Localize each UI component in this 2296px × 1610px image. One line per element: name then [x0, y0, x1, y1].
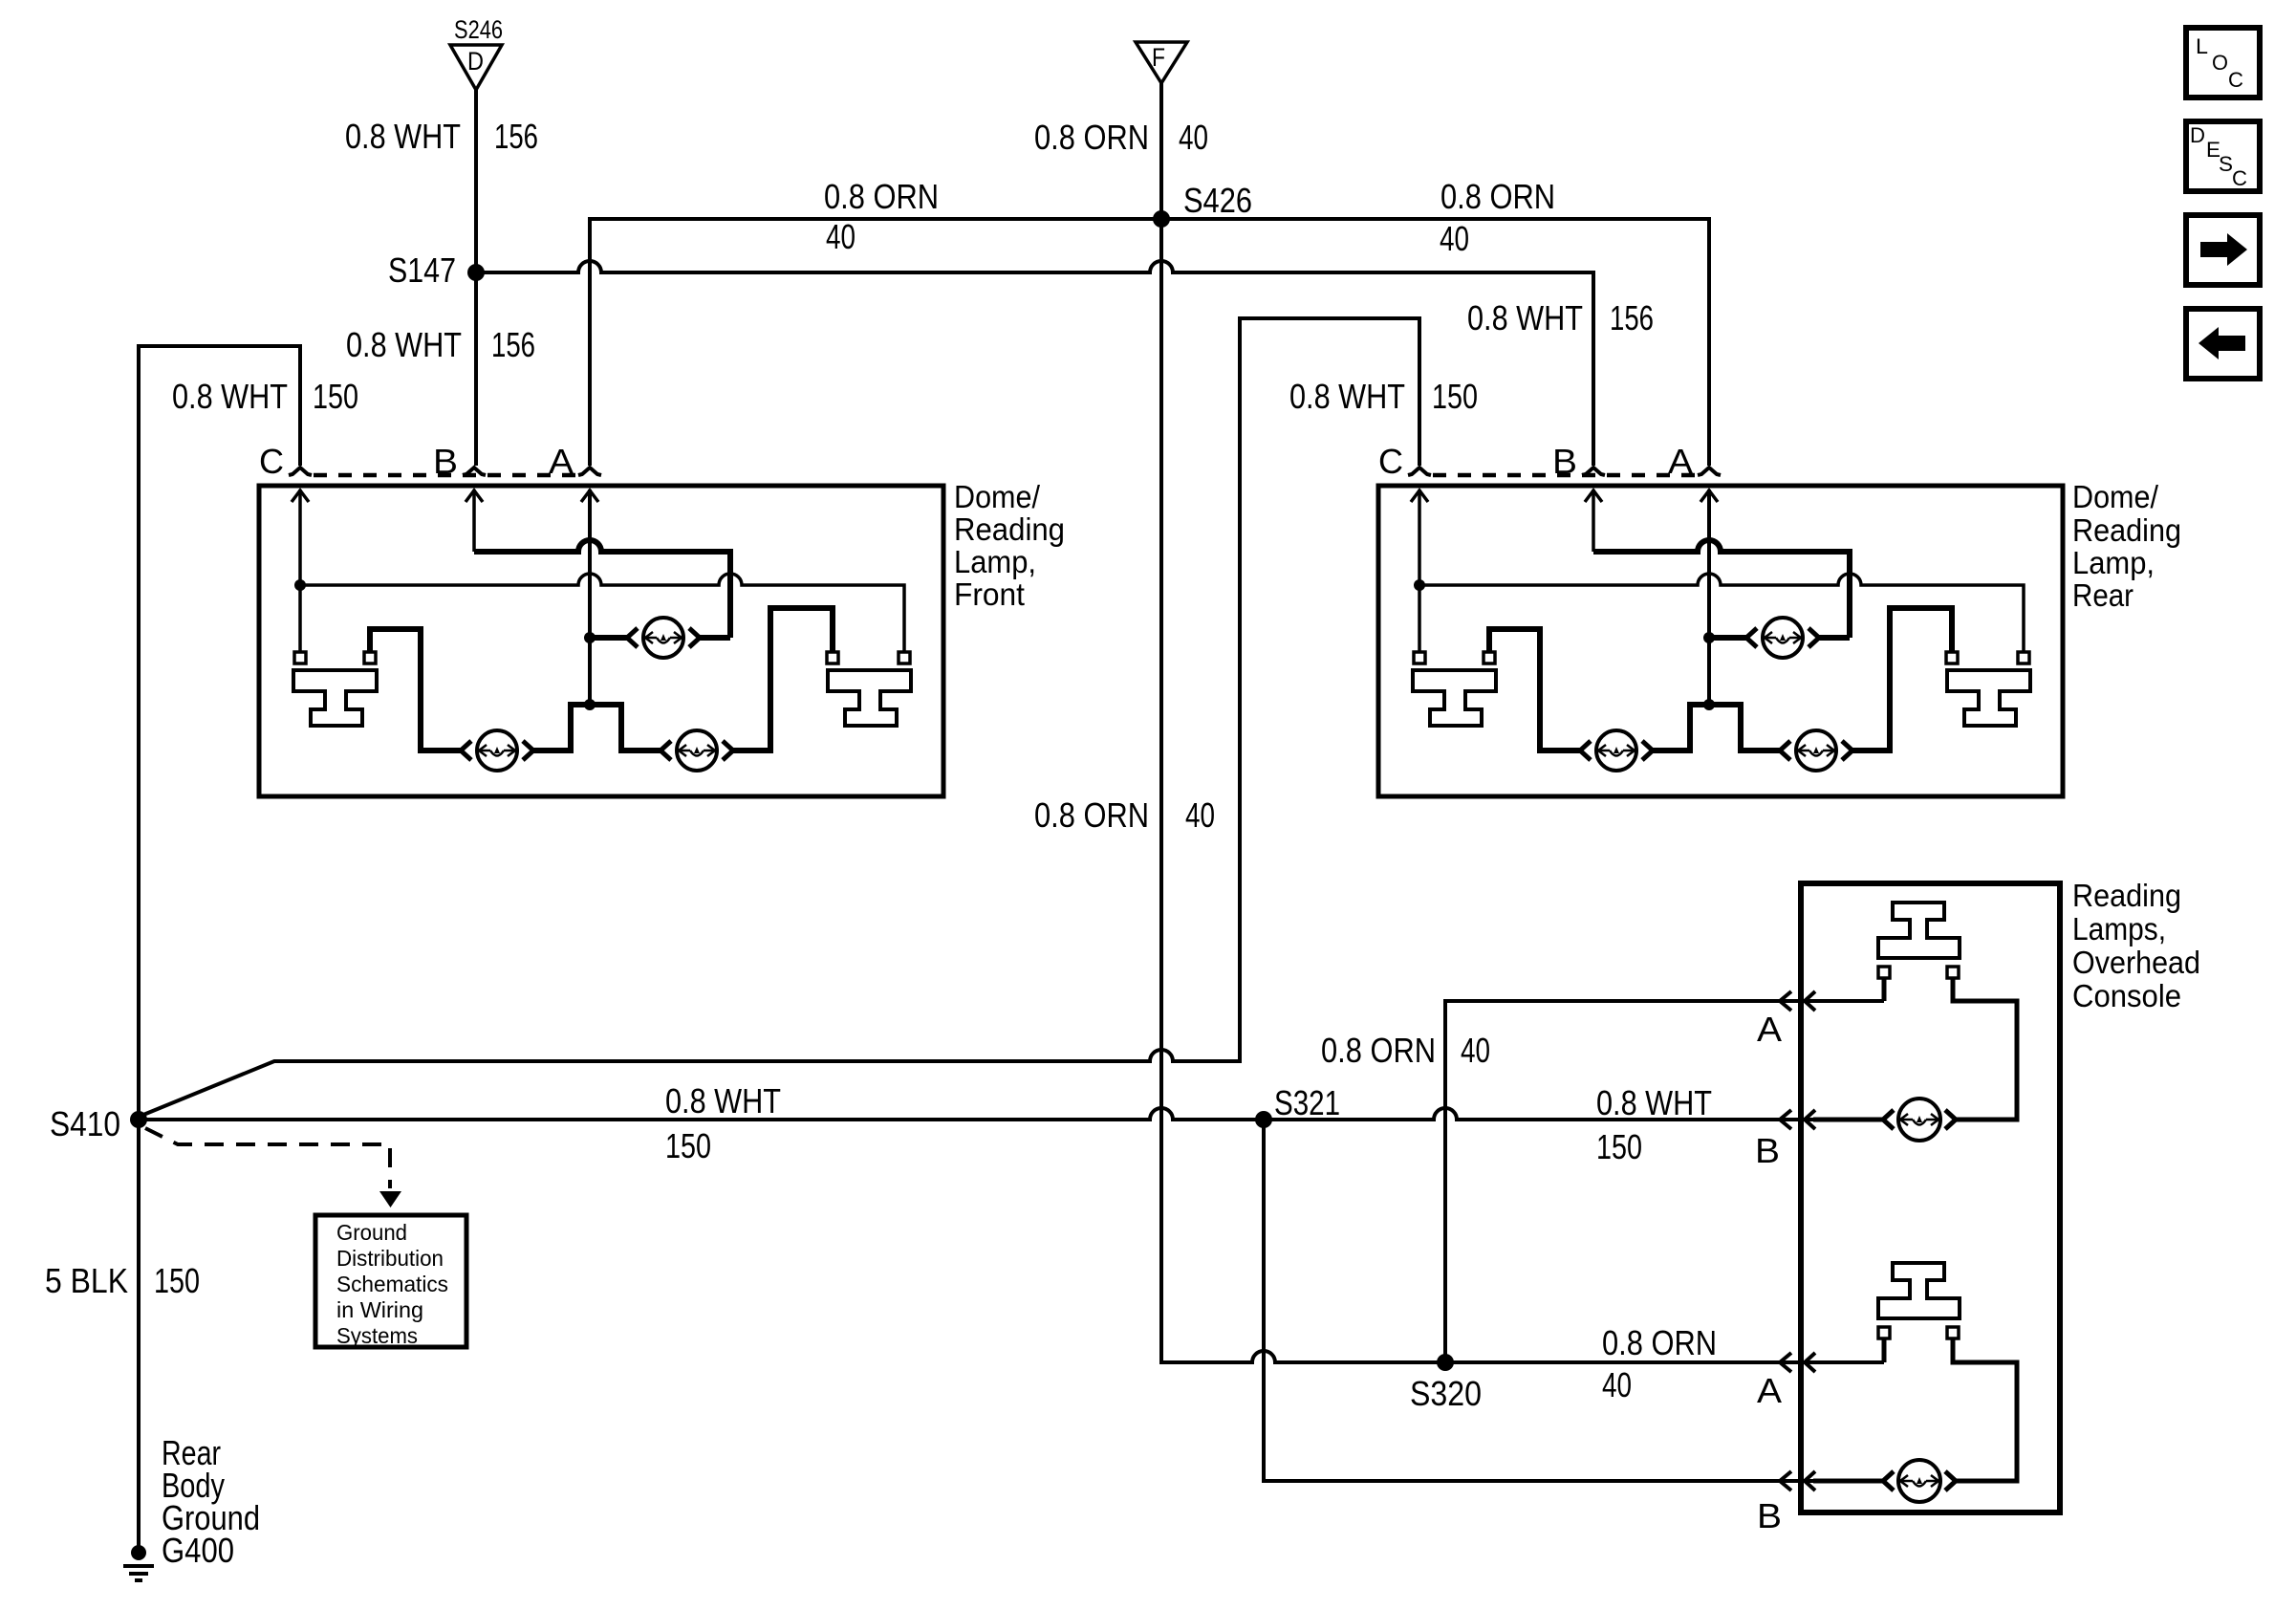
console upper lamp loop wire	[1953, 978, 2017, 1120]
connector triangle S246 (to page D)	[450, 45, 502, 90]
ground G400 symbol	[131, 1545, 146, 1560]
svg-text:Dome/: Dome/	[2072, 479, 2159, 514]
svg-text:A: A	[1757, 1371, 1782, 1410]
svg-text:156: 156	[494, 117, 538, 156]
svg-text:Front: Front	[954, 577, 1025, 612]
right switch terminals (rear)	[1946, 652, 1958, 664]
svg-text:0.8 WHT: 0.8 WHT	[172, 377, 288, 416]
right switch loop wire (front)	[733, 608, 833, 751]
svg-text:40: 40	[1461, 1031, 1490, 1070]
svg-text:S426: S426	[1183, 181, 1252, 220]
splice S426	[1153, 210, 1170, 228]
console upper switch terminals	[1878, 967, 1890, 978]
front lamp box	[259, 486, 943, 796]
svg-text:B: B	[1757, 1496, 1782, 1535]
svg-text:150: 150	[154, 1261, 200, 1300]
console upper pin B wall arrows	[1780, 1110, 1791, 1129]
svg-text:F: F	[1152, 43, 1165, 72]
svg-text:156: 156	[1610, 298, 1654, 337]
svg-text:0.8 ORN: 0.8 ORN	[1321, 1031, 1436, 1070]
svg-text:150: 150	[665, 1126, 711, 1165]
right reading bulb (front)	[677, 730, 717, 771]
svg-text:S320: S320	[1410, 1374, 1482, 1413]
console upper switch I-beam	[1878, 903, 1960, 958]
svg-text:C: C	[259, 442, 284, 481]
svg-text:40: 40	[1185, 795, 1215, 835]
svg-text:Lamps,: Lamps,	[2072, 911, 2166, 946]
reference arrowhead	[379, 1191, 401, 1207]
svg-text:0.8 ORN: 0.8 ORN	[1602, 1323, 1717, 1362]
console upper bulb stub	[1813, 1118, 1883, 1122]
button back arrow	[2186, 309, 2260, 379]
pin A internal wire (rear)	[1707, 490, 1711, 705]
dome bulb stubs (front)	[590, 635, 730, 641]
svg-text:40: 40	[1602, 1365, 1632, 1404]
console lower left terminal wire	[1882, 1338, 1887, 1362]
left switch I-beam (rear)	[1413, 670, 1496, 726]
svg-text:D: D	[467, 47, 484, 76]
dome bulb (front)	[643, 618, 683, 658]
switch wire B to dome bulb (rear)	[1593, 540, 1850, 638]
pin C fork (front)	[289, 468, 312, 475]
console lower switch I-beam	[1878, 1263, 1960, 1318]
svg-text:C: C	[2228, 68, 2243, 92]
pin C fork (rear)	[1408, 468, 1431, 475]
svg-text:S321: S321	[1274, 1083, 1340, 1122]
svg-text:40: 40	[826, 217, 856, 256]
dashed reference line from S410	[145, 1128, 390, 1188]
svg-text:O: O	[2212, 51, 2228, 75]
pin B internal wire (rear)	[1592, 490, 1595, 552]
svg-text:Schematics: Schematics	[336, 1272, 448, 1296]
left switch I-beam (front)	[293, 670, 377, 726]
note box Ground Distribution Schematics in Wiring Systems	[315, 1215, 466, 1347]
svg-text:in Wiring: in Wiring	[336, 1297, 423, 1322]
svg-text:0.8 ORN: 0.8 ORN	[1440, 177, 1555, 216]
svg-text:Lamp,: Lamp,	[2072, 545, 2155, 580]
svg-text:156: 156	[491, 325, 535, 364]
splice S320	[1437, 1354, 1454, 1371]
pin C arrow (rear)	[1411, 490, 1428, 502]
left switch terminals (rear)	[1414, 652, 1425, 664]
console lower pin A wall arrows	[1780, 1353, 1791, 1372]
svg-text:0.8 ORN: 0.8 ORN	[1034, 795, 1149, 835]
svg-text:0.8 ORN: 0.8 ORN	[824, 177, 939, 216]
svg-text:C: C	[2232, 166, 2247, 190]
svg-text:Ground: Ground	[336, 1220, 407, 1245]
pin B arrow (rear)	[1585, 490, 1602, 502]
switch feed wire C to right switch (rear)	[1419, 574, 2024, 652]
wire 0.8 ORN 40 (console upper pin A riser)	[1445, 1001, 1884, 1362]
junction dots A wire (rear)	[1703, 632, 1715, 643]
wire 0.8 WHT 156 (S246 to S147 to front lamp pin B)	[474, 90, 478, 466]
wire 0.8 WHT 150 (S410 to rear lamp pin C)	[143, 318, 1419, 1115]
console lower bulb stub	[1813, 1479, 1883, 1484]
svg-text:0.8 ORN: 0.8 ORN	[1034, 118, 1149, 157]
svg-text:Rear: Rear	[2072, 577, 2134, 613]
svg-text:0.8 WHT: 0.8 WHT	[1289, 377, 1405, 416]
wire 0.8 WHT 150 (S410 to S321 to console pin B)	[139, 1108, 1883, 1120]
dashed pin line (front)	[314, 473, 580, 478]
wire 0.8 WHT 156 (S147 to rear lamp pin B)	[476, 261, 1593, 466]
right switch I-beam (front)	[828, 670, 911, 726]
svg-text:Overhead: Overhead	[2072, 945, 2200, 980]
pin A fork (front)	[578, 468, 601, 475]
svg-text:40: 40	[1440, 219, 1469, 258]
pin C arrow (front)	[292, 490, 309, 502]
svg-text:S246: S246	[454, 15, 503, 44]
svg-text:Systems: Systems	[336, 1323, 418, 1348]
svg-text:Reading: Reading	[2072, 512, 2181, 548]
svg-text:L: L	[2196, 34, 2208, 58]
svg-text:Distribution: Distribution	[336, 1246, 444, 1271]
dashed pin line (rear)	[1433, 473, 1700, 478]
console lower switch terminals	[1878, 1327, 1890, 1338]
svg-text:40: 40	[1179, 118, 1208, 157]
svg-text:5 BLK: 5 BLK	[45, 1261, 128, 1300]
pin C internal wire (front)	[298, 490, 302, 652]
pin B fork (rear)	[1582, 468, 1605, 475]
right switch terminals (front)	[827, 652, 838, 664]
svg-text:Lamp,: Lamp,	[954, 544, 1036, 579]
overhead console box	[1801, 883, 2060, 1512]
right switch loop wire (rear)	[1852, 608, 1952, 751]
svg-text:A: A	[1757, 1010, 1782, 1049]
pin B arrow (front)	[466, 490, 483, 502]
reading bulb link wire (rear)	[1653, 705, 1780, 751]
rear lamp box	[1378, 486, 2063, 796]
dome bulb (rear)	[1763, 618, 1803, 658]
svg-text:0.8 WHT: 0.8 WHT	[346, 325, 462, 364]
reading bulb link wire (front)	[533, 705, 661, 751]
svg-text:0.8 WHT: 0.8 WHT	[1467, 298, 1583, 337]
wire 0.8 WHT 150 (S321 to console lower pin B)	[1264, 1120, 1883, 1481]
wire 0.8 ORN 40 (F down through S426 to S320 line)	[1161, 83, 1884, 1362]
svg-text:D: D	[2190, 123, 2205, 147]
left reading bulb (rear)	[1596, 730, 1636, 771]
svg-text:Console: Console	[2072, 978, 2181, 1013]
console lower bulb	[1898, 1460, 1940, 1502]
wire 0.8 ORN 40 (S426 to front and rear lamp pin A)	[590, 219, 1709, 466]
console upper left terminal wire	[1882, 978, 1887, 1001]
splice S321	[1255, 1111, 1272, 1128]
console lower pin B wall arrows	[1780, 1471, 1791, 1490]
wire 0.8 WHT 150 (S410 riser to front lamp pin C) and 5 BLK 150 to G400	[139, 346, 300, 1547]
pin A internal wire (front)	[588, 490, 592, 705]
connector triangle F	[1136, 42, 1187, 83]
switch wire B to dome bulb (front)	[474, 540, 730, 638]
svg-text:0.8 WHT: 0.8 WHT	[345, 117, 461, 156]
pin C internal wire (rear)	[1418, 490, 1421, 652]
svg-text:150: 150	[1596, 1127, 1642, 1166]
svg-text:Reading: Reading	[954, 511, 1065, 547]
left switch terminals (front)	[294, 652, 306, 664]
junction dot C wire (front)	[294, 579, 306, 591]
svg-text:150: 150	[1432, 377, 1478, 416]
svg-text:S: S	[2219, 152, 2233, 176]
pin B internal wire (front)	[472, 490, 476, 552]
console upper pin A wall arrows	[1780, 991, 1791, 1011]
console upper bulb	[1898, 1099, 1940, 1141]
left reading bulb (front)	[477, 730, 517, 771]
right reading bulb (rear)	[1796, 730, 1836, 771]
svg-text:B: B	[1755, 1131, 1780, 1170]
pin A fork (rear)	[1698, 468, 1721, 475]
switch feed wire C to right switch (front)	[300, 574, 904, 652]
svg-text:Dome/: Dome/	[954, 479, 1041, 514]
splice S410	[130, 1111, 147, 1128]
left switch loop wire (front)	[370, 629, 461, 751]
right switch I-beam (rear)	[1947, 670, 2030, 726]
console lower lamp loop wire	[1953, 1338, 2017, 1481]
svg-text:S147: S147	[388, 250, 456, 290]
splice S147	[467, 264, 485, 281]
svg-text:0.8 WHT: 0.8 WHT	[665, 1081, 781, 1120]
svg-text:150: 150	[313, 377, 358, 416]
pin A arrow (rear)	[1700, 490, 1718, 502]
button DESC	[2186, 121, 2260, 191]
junction dots A wire (front)	[584, 632, 596, 643]
button next arrow	[2186, 215, 2260, 285]
pin B fork (front)	[463, 468, 486, 475]
svg-text:S410: S410	[50, 1104, 120, 1143]
svg-text:G400: G400	[162, 1531, 234, 1570]
svg-text:Reading: Reading	[2072, 878, 2181, 913]
left switch loop wire (rear)	[1489, 629, 1580, 751]
button LOC	[2186, 28, 2260, 98]
junction dot C wire (rear)	[1414, 579, 1425, 591]
dome bulb stubs (rear)	[1709, 635, 1850, 641]
svg-text:0.8 WHT: 0.8 WHT	[1596, 1083, 1712, 1122]
svg-text:C: C	[1378, 442, 1403, 481]
pin A arrow (front)	[581, 490, 598, 502]
